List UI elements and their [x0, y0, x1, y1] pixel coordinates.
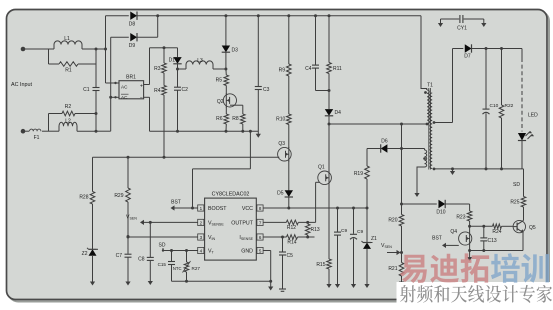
svg-text:R25: R25: [510, 200, 519, 206]
svg-text:L3: L3: [197, 58, 203, 64]
svg-text:R22: R22: [505, 103, 514, 109]
svg-text:VCC: VCC: [242, 206, 253, 212]
svg-text:Q4: Q4: [450, 229, 457, 235]
resistor R6: [216, 114, 229, 131]
inductor L1: [54, 36, 82, 49]
resistor R23: [456, 204, 472, 226]
inductor L2: [59, 119, 77, 132]
wire pin5 gnd: [263, 251, 273, 291]
wire pin1 BST: [171, 200, 199, 211]
label AC Input: [11, 82, 32, 88]
svg-text:R10: R10: [276, 117, 285, 123]
svg-text:C15: C15: [158, 262, 167, 267]
node AC line terminal top: [21, 47, 26, 52]
wire top bus: [158, 14, 421, 17]
wire top terminal to L1 block: [23, 48, 49, 50]
wire bottom terminal to fuse: [23, 130, 29, 132]
resistor R13: [305, 224, 319, 237]
svg-text:C4: C4: [305, 66, 312, 72]
resistor R28: [79, 157, 94, 204]
wire D8-D9 junction: [156, 14, 159, 37]
svg-text:R13: R13: [311, 227, 320, 233]
wire fuse to L2 block: [42, 130, 49, 132]
svg-text:D1: D1: [169, 58, 176, 64]
svg-text:R4: R4: [154, 88, 161, 94]
svg-text:C9: C9: [357, 229, 363, 235]
svg-text:R23: R23: [456, 215, 465, 221]
capacitor C9: [350, 208, 363, 288]
wire D9 riser: [109, 37, 112, 131]
wire gate drive line: [468, 225, 492, 228]
svg-text:R15: R15: [316, 262, 325, 268]
resistor R9: [279, 16, 292, 76]
wire BOOST tap: [193, 131, 251, 208]
wire BR1 plus output: [144, 48, 164, 85]
svg-text:R29: R29: [114, 193, 123, 199]
capacitor CY1: [438, 15, 487, 32]
svg-text:Z2: Z2: [82, 251, 88, 257]
capacitor C10: [483, 49, 499, 169]
diode D7: [453, 44, 523, 59]
svg-text:R5: R5: [216, 78, 223, 84]
wire Q3 source: [288, 161, 290, 191]
wire pin3 Vin: [127, 236, 199, 239]
svg-text:C2: C2: [182, 87, 189, 93]
capacitor C13: [480, 226, 497, 252]
svg-text:D6: D6: [381, 139, 388, 145]
wire DC rail: [150, 130, 259, 133]
capacitor C4: [305, 16, 329, 91]
diode D4: [325, 91, 341, 126]
svg-text:C8: C8: [138, 257, 145, 263]
wire pin2 Vsen: [140, 220, 198, 225]
ground secondary: [450, 167, 455, 175]
svg-text:BR1: BR1: [126, 75, 136, 81]
svg-text:R14: R14: [287, 240, 296, 246]
svg-text:R20: R20: [388, 218, 397, 224]
capacitor C8 vcc: [334, 208, 347, 288]
resistor R29: [114, 157, 130, 236]
wire Q1 source to R15: [328, 184, 330, 259]
diode D6: [367, 139, 425, 153]
wire BR1 AC bottom: [111, 96, 119, 98]
resistor R25: [510, 169, 525, 221]
svg-text:R3: R3: [154, 66, 161, 72]
wire secondary top to D7: [434, 49, 453, 123]
svg-text:D5: D5: [277, 191, 284, 197]
capacitor C2: [174, 68, 188, 132]
capacitor C5: [279, 237, 293, 291]
resistor R8: [232, 105, 245, 131]
wire Q4 Q5 emitter line: [470, 233, 523, 251]
svg-text:D10: D10: [436, 210, 445, 216]
wire top line to C1 node: [95, 48, 106, 51]
svg-text:C7: C7: [116, 253, 123, 259]
svg-text:C13: C13: [488, 238, 497, 244]
resistor R14: [263, 235, 315, 246]
transistor Q5: [513, 220, 536, 232]
label Vsen feed: [381, 243, 401, 255]
svg-text:R12: R12: [287, 225, 296, 231]
resistor R19: [354, 149, 369, 209]
svg-text:AC Input: AC Input: [11, 82, 32, 88]
capacitor C7: [116, 235, 132, 286]
wire gate line: [93, 156, 280, 159]
inductor T1 aux winding: [414, 149, 426, 198]
label SD shutdown: [159, 243, 166, 252]
svg-text:Z1: Z1: [371, 236, 377, 242]
svg-text:+: +: [140, 84, 143, 90]
resistor R2: [62, 104, 75, 116]
capacitor C8: [138, 222, 154, 285]
wire secondary bus: [433, 167, 524, 170]
wire VCC rail: [263, 207, 369, 210]
svg-text:R28: R28: [79, 195, 88, 201]
fuse F1: [30, 129, 41, 141]
svg-text:Q1: Q1: [318, 165, 325, 171]
op-amp U1 CY8CLEDAC02 controller: [198, 191, 263, 260]
svg-text:D8: D8: [129, 22, 136, 28]
resistor R3: [154, 48, 166, 73]
svg-text:C1: C1: [83, 87, 90, 93]
resistor R24: [492, 224, 513, 235]
svg-text:Q5: Q5: [529, 225, 536, 231]
diode D9: [111, 33, 158, 49]
svg-text:T1: T1: [427, 83, 433, 89]
svg-text:CY8CLEDAC02: CY8CLEDAC02: [212, 191, 250, 197]
resistor R12: [263, 220, 316, 231]
transistor Q2: [217, 93, 237, 107]
resistor R4: [154, 73, 166, 157]
svg-text:GND: GND: [241, 249, 253, 255]
wire Q1 gate: [316, 182, 320, 222]
wire aux rail: [400, 124, 403, 206]
wire bottom line to BR1 riser: [95, 130, 111, 133]
inductor L3: [178, 58, 226, 69]
wire Q2 source to R8: [226, 105, 243, 114]
svg-text:L2: L2: [65, 119, 71, 125]
resistor R15: [316, 259, 331, 288]
diode D1: [169, 48, 182, 69]
svg-text:R9: R9: [279, 68, 286, 74]
bridge rectifier BR1: [119, 75, 144, 102]
wire switch line to T1: [329, 123, 427, 126]
label Vsen: [126, 215, 137, 221]
watermark logo: [397, 253, 553, 305]
svg-text:SD: SD: [513, 182, 520, 188]
svg-text:D3: D3: [232, 48, 239, 54]
wire DC top line: [163, 46, 178, 49]
svg-text:D7: D7: [464, 54, 471, 60]
transistor Q4: [450, 226, 471, 250]
zener Z1: [362, 208, 378, 288]
transformer T1: [421, 16, 435, 170]
svg-text:LED: LED: [528, 113, 538, 119]
svg-text:R24: R24: [492, 229, 501, 235]
resistor R1: [59, 62, 78, 74]
wire L1R1 block frame: [49, 49, 97, 64]
ground Q4 source: [467, 249, 472, 261]
resistor R10: [276, 76, 291, 148]
svg-text:BOOST: BOOST: [208, 206, 227, 212]
svg-text:Q3: Q3: [278, 141, 285, 147]
svg-text:D9: D9: [129, 43, 136, 49]
svg-text:R2: R2: [65, 104, 72, 110]
svg-text:R19: R19: [354, 171, 363, 177]
wire bottom bus: [172, 280, 273, 283]
wire D4 to Q1 drain: [328, 124, 330, 172]
capacitor C15: [158, 251, 175, 282]
svg-text:D4: D4: [335, 110, 342, 116]
resistor R22: [499, 49, 513, 169]
svg-text:C10: C10: [490, 103, 499, 109]
transistor Q3: [278, 141, 292, 162]
capacitor C3: [255, 16, 270, 138]
svg-text:R1: R1: [65, 68, 72, 74]
wire pin4 Vt: [163, 249, 198, 252]
svg-text:C9: C9: [341, 228, 347, 234]
diode D5: [277, 190, 293, 209]
transistor Q1: [318, 165, 332, 186]
diode D3: [222, 16, 238, 71]
diode D10: [402, 200, 470, 216]
svg-text:OUTPUT: OUTPUT: [231, 220, 254, 226]
svg-text:R27: R27: [192, 266, 201, 271]
svg-text:NTC: NTC: [173, 266, 182, 271]
svg-text:R6: R6: [216, 116, 223, 122]
wire BST gate: [432, 236, 459, 249]
wire D8 anode riser: [104, 16, 107, 83]
LED string: [518, 49, 538, 169]
node AC neutral terminal bottom: [21, 129, 26, 134]
diode D8: [106, 12, 158, 28]
svg-text:AC: AC: [121, 95, 128, 100]
thermistor R27 NTC: [173, 251, 200, 282]
svg-text:AC: AC: [121, 84, 128, 89]
svg-text:−: −: [140, 96, 143, 102]
resistor R11: [327, 16, 342, 92]
svg-text:SD: SD: [159, 243, 166, 249]
svg-text:R8: R8: [232, 116, 239, 122]
wire BR1 minus output: [144, 97, 150, 131]
wire BR1 AC top: [106, 82, 120, 84]
svg-text:L1: L1: [64, 36, 70, 42]
svg-text:BST: BST: [432, 236, 442, 242]
svg-text:BST: BST: [171, 200, 181, 206]
capacitor C1: [83, 49, 99, 131]
resistor R21: [388, 251, 404, 286]
svg-text:F1: F1: [34, 135, 40, 141]
svg-text:C3: C3: [263, 87, 270, 93]
resistor R5: [216, 69, 229, 94]
svg-text:Q2: Q2: [217, 99, 224, 105]
zener Z2: [82, 204, 98, 286]
svg-text:CY1: CY1: [457, 26, 467, 32]
wire T1 primary bottom: [426, 123, 429, 126]
wire L2R2 block frame: [49, 112, 98, 131]
svg-text:C5: C5: [287, 253, 294, 259]
svg-text:R11: R11: [333, 66, 342, 72]
resistor R20: [388, 204, 403, 253]
svg-text:R21: R21: [388, 266, 397, 272]
